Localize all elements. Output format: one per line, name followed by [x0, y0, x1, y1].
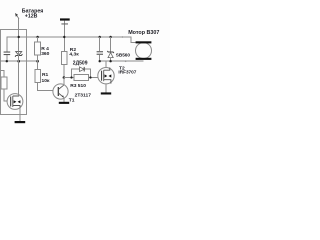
ground T3 — [15, 121, 26, 123]
label Батарея +12В — [22, 8, 44, 19]
enclosure box frame — [0, 30, 27, 115]
node dot R2 bottom — [63, 76, 66, 79]
wire top rail +12V — [7, 37, 136, 52]
gate drive line — [64, 77, 98, 79]
svg-text:R1: R1 — [42, 72, 49, 78]
capacitor C2 — [97, 37, 103, 61]
svg-text:R3 510: R3 510 — [70, 83, 86, 89]
transistor T3 MOSFET (in box) — [7, 52, 23, 122]
node dots lower-left rail — [6, 60, 39, 63]
motor B307 — [128, 30, 159, 60]
battery symbol — [60, 18, 70, 24]
capacitor C1 — [4, 52, 11, 62]
svg-text:IRF3707: IRF3707 — [118, 70, 136, 75]
diode 2Д509 branch — [70, 60, 91, 78]
transistor T1 BJT — [53, 78, 91, 104]
node dots drain wire — [99, 60, 127, 62]
ground T2 — [101, 92, 111, 94]
battery terminal arrow — [15, 13, 19, 19]
svg-text:+12В: +12В — [25, 14, 38, 20]
node dots top rail — [18, 36, 124, 38]
ground T1 — [59, 102, 69, 104]
resistor R3 — [70, 75, 88, 89]
diode SB560 — [107, 37, 130, 61]
svg-text:360: 360 — [41, 51, 49, 57]
wire lower-left rail — [0, 60, 38, 62]
wire battery to rail — [64, 25, 66, 52]
transistor T2 MOSFET IRF3707 — [98, 61, 137, 92]
svg-text:Мотор В307: Мотор В307 — [128, 30, 159, 36]
svg-text:2T3117: 2T3117 — [75, 93, 92, 99]
resistor R4 — [34, 37, 49, 61]
svg-text:R 4: R 4 — [41, 46, 49, 52]
motor drain wire — [100, 60, 144, 62]
zener diode VD1 — [15, 52, 22, 62]
resistor R2 — [61, 47, 79, 77]
svg-text:10к: 10к — [42, 78, 50, 84]
resistor R1 — [35, 61, 53, 90]
svg-text:T1: T1 — [69, 97, 75, 103]
svg-text:4,3к: 4,3к — [69, 52, 79, 58]
resistor R5 (left, unlabeled) — [1, 71, 8, 101]
svg-text:SB560: SB560 — [116, 52, 131, 57]
svg-text:2Д509: 2Д509 — [73, 60, 88, 66]
wire battery arrow down — [18, 19, 20, 52]
